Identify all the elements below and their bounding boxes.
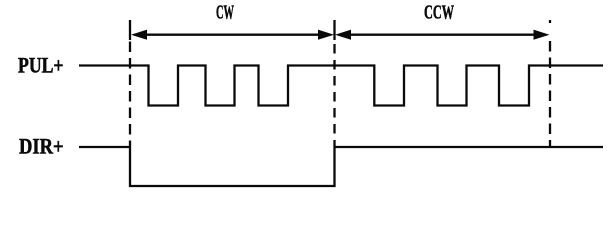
svg-text:PUL+: PUL+ [18,53,64,77]
svg-text:CW: CW [216,1,234,23]
svg-text:DIR+: DIR+ [19,134,64,158]
svg-text:CCW: CCW [424,1,454,23]
